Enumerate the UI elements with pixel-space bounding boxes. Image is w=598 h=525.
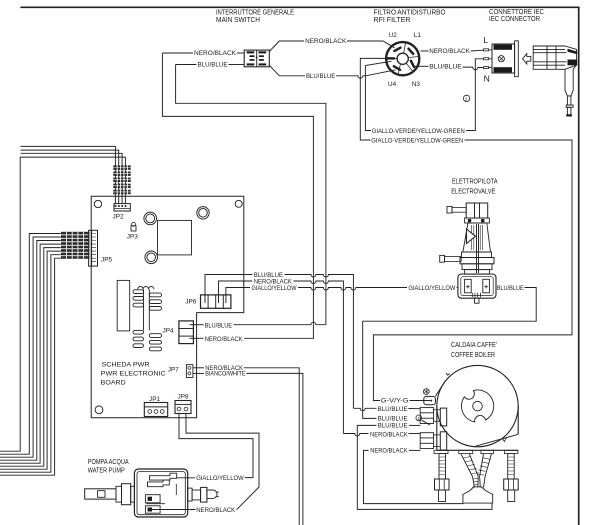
svg-text:JP6: JP6	[185, 298, 196, 305]
wire NERO/BLACK JP7 down right	[193, 368, 299, 525]
IC U10 square	[158, 220, 192, 255]
EV1 upper flange	[465, 218, 490, 223]
boiler spade connector stack lower	[420, 432, 446, 450]
pin E	[484, 58, 489, 60]
M1 lower terminal 2	[145, 506, 195, 513]
svg-text:BOARD: BOARD	[101, 380, 126, 387]
PCB corner hole bottom-left	[95, 406, 103, 414]
label: electrovalve title	[451, 176, 497, 195]
JP8 connector	[175, 401, 191, 414]
main switch S1 terminal block	[244, 50, 269, 67]
wire NERO/BLACK JP8 to pump	[186, 414, 259, 510]
svg-text:2: 2	[465, 97, 468, 102]
svg-text:PWR ELECTRONIC: PWR ELECTRONIC	[101, 371, 166, 378]
M1 right outlet	[188, 488, 192, 501]
JP5 connector	[89, 230, 98, 266]
EV1 coil terminal right	[483, 279, 490, 293]
label: RFI filter title	[374, 7, 446, 24]
svg-text:NERO/BLACK: NERO/BLACK	[194, 50, 237, 57]
svg-text:JP1: JP1	[149, 396, 160, 403]
EV1 top pipe	[447, 206, 452, 213]
PCB corner hole top-right	[235, 200, 242, 207]
wire GIALLO/YELLOW JP8 to pump	[177, 414, 253, 478]
svg-text:BLU/BLUE: BLU/BLUE	[378, 406, 408, 413]
svg-text:GIALLO-VERDE/YELLOW-GREEN: GIALLO-VERDE/YELLOW-GREEN	[372, 128, 465, 135]
svg-text:GIALLO/YELLOW: GIALLO/YELLOW	[408, 285, 455, 292]
B1 rotor disc	[461, 390, 493, 422]
svg-text:BIANCO/WHITE: BIANCO/WHITE	[205, 371, 245, 378]
earth screw symbol	[423, 389, 429, 395]
boiler manifold block	[463, 487, 493, 503]
svg-text:U4: U4	[388, 81, 397, 88]
wire ribbon JP2 (4 wires to left edge)	[0, 146, 125, 451]
svg-text:L1: L1	[414, 32, 422, 39]
JP7 connector	[186, 365, 193, 378]
svg-text:NERO/BLACK: NERO/BLACK	[205, 336, 244, 343]
svg-text:JP4: JP4	[163, 327, 174, 334]
power resistor R1 heatsink	[133, 287, 162, 351]
wire BLU/BLUE from switch left to JP4 BLU (net N-switched)	[176, 65, 326, 325]
label: main switch title	[216, 7, 294, 24]
EV1 side pipe	[440, 255, 445, 262]
svg-text:ELECTROVALVE: ELECTROVALVE	[451, 186, 495, 195]
PCB corner hole top-left	[94, 200, 101, 207]
mains plug P1 with cord	[533, 46, 577, 117]
svg-text:SCHEDA PWR: SCHEDA PWR	[102, 362, 150, 369]
svg-text:NERO/BLACK: NERO/BLACK	[305, 38, 347, 45]
JP2 connector	[114, 204, 130, 211]
svg-text:NERO/BLACK: NERO/BLACK	[370, 448, 408, 455]
svg-text:G-V/Y-G: G-V/Y-G	[381, 398, 409, 405]
frame border right	[578, 7, 580, 525]
label: coffee boiler title	[451, 340, 497, 359]
boiler outlet pipe right	[477, 450, 494, 487]
svg-text:JP2: JP2	[113, 213, 124, 220]
wire GIALLO-VERDE/YELLOW-GREEN ground: filter tab to boiler ground terminal	[360, 58, 572, 400]
svg-text:CALDAIA CAFFE': CALDAIA CAFFE'	[451, 340, 497, 349]
svg-text:NERO/BLACK: NERO/BLACK	[254, 278, 293, 285]
svg-text:ELETTROPILOTA: ELETTROPILOTA	[452, 176, 498, 185]
IEC socket body	[489, 41, 519, 77]
wire NERO/BLACK boiler #2 to heater post left	[364, 450, 463, 503]
svg-text:GIALLO/YELLOW: GIALLO/YELLOW	[252, 285, 297, 292]
EV1 cone body	[463, 223, 491, 252]
svg-text:NERO/BLACK: NERO/BLACK	[370, 432, 408, 439]
svg-text:BLU/BLUE: BLU/BLUE	[205, 322, 233, 329]
EV1 coil terminal left	[465, 279, 472, 293]
label: IEC connector title	[489, 7, 544, 23]
boiler ground terminal G-V/Y-G	[424, 381, 445, 404]
boiler left threaded pipe	[434, 450, 449, 501]
svg-text:BLU/BLUE: BLU/BLUE	[306, 73, 335, 80]
JP5 crimp connector stack	[61, 232, 90, 259]
label: water pump title	[88, 457, 129, 475]
svg-text:WATER PUMP: WATER PUMP	[88, 465, 125, 474]
svg-text:N3: N3	[412, 81, 421, 88]
circled 2 symbol	[463, 95, 469, 101]
RFI filter FL1	[386, 42, 419, 75]
svg-text:MAIN SWITCH: MAIN SWITCH	[216, 15, 260, 24]
svg-text:BLU/BLUE: BLU/BLUE	[378, 422, 408, 429]
svg-text:GIALLO/YELLOW: GIALLO/YELLOW	[196, 475, 244, 482]
EV1 mounting tabs	[472, 293, 480, 297]
pin N	[484, 67, 489, 69]
M1 shaft left	[85, 489, 116, 499]
JP2 crimp connector stack	[113, 165, 130, 194]
label: board title	[101, 362, 166, 387]
wire ribbon JP5 (8 wires loop to left edge)	[0, 234, 61, 476]
svg-text:BLU/BLUE: BLU/BLUE	[198, 62, 228, 69]
M1 terminal spades	[148, 473, 177, 495]
svg-text:IEC CONNECTOR: IEC CONNECTOR	[489, 14, 540, 23]
svg-text:JP8: JP8	[178, 394, 189, 401]
wire BIANCO/WHITE JP7 down right	[193, 373, 303, 525]
frame border top	[20, 6, 579, 8]
JP1 connector	[144, 403, 167, 417]
svg-text:COFFEE BOILER: COFFEE BOILER	[451, 350, 495, 359]
electrovalve EV1	[440, 203, 496, 303]
wire NERO/BLACK from switch left to JP4 NERO (net L-switched)	[162, 53, 313, 338]
arrow mate symbol	[523, 54, 531, 64]
coffee boiler B1 body	[437, 365, 518, 450]
svg-text:N: N	[484, 74, 490, 84]
wire GIALLO/YELLOW JP6 to electrovalve	[226, 288, 458, 304]
water pump M1	[85, 469, 219, 517]
wire BLU/BLUE boiler #3 to heater post right	[357, 425, 492, 509]
IEC connector J1	[483, 35, 531, 83]
svg-text:U2: U2	[389, 32, 398, 39]
svg-text:JP7: JP7	[168, 366, 179, 373]
wire GIALLO-VERDE/YELLOW-GREEN ground: IEC earth pin to filter case	[365, 59, 483, 131]
PCB pad circle C3	[145, 251, 158, 264]
svg-text:JP3: JP3	[127, 234, 138, 241]
pin L	[484, 49, 489, 51]
PCB pad circle C1	[144, 212, 157, 225]
relay K1	[117, 280, 130, 331]
wire NERO/BLACK JP6 to boiler NERO#1	[219, 281, 421, 436]
wire BLU/BLUE filter N3 to IEC pin N	[415, 66, 484, 69]
boiler spade connector stack upper	[420, 408, 446, 426]
circled 1 symbol	[416, 415, 422, 421]
svg-text:JP5: JP5	[101, 257, 112, 264]
svg-text:RFI FILTER: RFI FILTER	[374, 15, 411, 24]
boiler right threaded pipe	[504, 450, 519, 501]
JP4 connector	[179, 321, 194, 344]
M1 lower terminal 1	[145, 495, 165, 504]
PCB power electronic board outline	[91, 196, 244, 418]
wire BLU/BLUE JP6 to boiler BLU#1	[205, 275, 420, 411]
svg-text:L: L	[483, 35, 488, 45]
JP6 connector	[201, 295, 231, 308]
boiler outlet pipe left	[459, 450, 479, 487]
EV1 top cylinder	[466, 203, 488, 218]
svg-text:NERO/BLACK: NERO/BLACK	[196, 507, 236, 514]
svg-text:GIALLO-VERDE/YELLOW-GREEN: GIALLO-VERDE/YELLOW-GREEN	[371, 138, 463, 145]
JP3 component	[131, 222, 136, 231]
wire NERO/BLACK switch to RFI filter U2	[269, 41, 394, 52]
wire BLU/BLUE electrovalve to boiler BLU#2	[363, 288, 537, 425]
svg-text:BLU/BLUE: BLU/BLUE	[429, 64, 462, 71]
svg-text:BLU/BLUE: BLU/BLUE	[497, 285, 524, 292]
EV1 coil housing	[458, 274, 496, 298]
EV1 armature wedge	[467, 229, 476, 244]
PCB pad circle C2	[197, 207, 209, 219]
EV1 flange plates	[460, 258, 494, 264]
wire BLU/BLUE switch to RFI filter U4	[269, 65, 395, 78]
wire NERO/BLACK filter L1 to IEC pin L	[421, 49, 484, 52]
svg-text:NERO/BLACK: NERO/BLACK	[429, 48, 470, 55]
